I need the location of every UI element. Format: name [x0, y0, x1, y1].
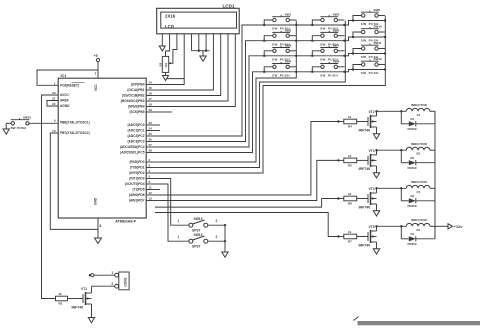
svg-text:26: 26: [149, 138, 153, 142]
svg-text:FR209: FR209: [408, 204, 417, 208]
svg-text:19: 19: [149, 108, 153, 112]
svg-text:VT2: VT2: [369, 110, 375, 114]
resistor R6 1k: [338, 192, 368, 206]
push button SW11: [352, 41, 387, 59]
svg-text:27: 27: [149, 143, 153, 147]
title block line: [358, 321, 480, 325]
push button SW9: [352, 8, 387, 26]
wire VT5 drain node: [375, 225, 406, 227]
svg-text:SW13: SW13: [194, 217, 203, 221]
svg-text:SW_PUSH: SW_PUSH: [11, 126, 27, 130]
ground under LCD data pins: [200, 56, 206, 61]
svg-text:(RXD)PD0: (RXD)PD0: [129, 160, 144, 164]
wire keypad row 2: [160, 37, 385, 142]
svg-text:CON2: CON2: [124, 277, 128, 286]
svg-text:(SCK)PB5: (SCK)PB5: [129, 110, 144, 114]
wire keypad row 1: [160, 21, 385, 137]
svg-text:R3: R3: [158, 62, 162, 66]
svg-text:(ADC0)PC0: (ADC0)PC0: [127, 123, 144, 127]
pin 22 AGND: [52, 102, 70, 108]
ground under IC1: [95, 238, 102, 244]
svg-text:23: 23: [149, 121, 153, 125]
svg-text:11: 11: [149, 186, 153, 190]
pin 13 (AIN1)PD7: [129, 197, 160, 203]
resistor R2 1k: [42, 292, 84, 306]
pin 11 (T1)PD5: [132, 186, 160, 192]
pin 14 (ICP)PB0: [131, 81, 160, 87]
svg-text:R6: R6: [348, 202, 352, 206]
wire PB7 to under-IC ground: [50, 133, 98, 229]
svg-text:25: 25: [149, 132, 153, 136]
svg-text:SW11: SW11: [374, 41, 382, 45]
svg-text:SW9: SW9: [374, 8, 381, 12]
svg-text:17: 17: [149, 97, 153, 101]
svg-text:D3: D3: [411, 194, 415, 198]
svg-text:2X16: 2X16: [165, 13, 176, 18]
svg-text:SPST: SPST: [192, 244, 201, 248]
svg-text:(SS/OC1B)PB2: (SS/OC1B)PB2: [122, 94, 145, 98]
svg-text:R7: R7: [348, 240, 352, 244]
inductor D1: [406, 218, 435, 232]
svg-text:A1: A1: [417, 113, 421, 117]
svg-text:VT1: VT1: [81, 287, 87, 291]
ground under VT3: [373, 173, 379, 178]
push button SW1: [263, 13, 297, 31]
pin 21 AREF: [52, 97, 69, 103]
ground under SPST: [222, 252, 228, 257]
svg-text:(ADC4/SDA)PC4: (ADC4/SDA)PC4: [120, 145, 145, 149]
switch SW14 SPST: [178, 233, 227, 249]
svg-text:B1: B1: [417, 152, 421, 156]
svg-text:1: 1: [178, 235, 180, 239]
svg-text:3: 3: [149, 164, 151, 168]
svg-text:SW6: SW6: [333, 28, 340, 32]
push button SW6: [311, 28, 346, 46]
push button SW2: [263, 28, 297, 46]
svg-text:SW14: SW14: [194, 233, 203, 237]
ground under VT1: [88, 318, 94, 323]
wire PD6 to VT2 gate: [160, 120, 340, 195]
wire LCD pins 5,6,7 joined to ground: [192, 34, 210, 56]
wire VT2 drain node: [375, 110, 406, 112]
diode D3 FR209: [401, 188, 435, 208]
wire keypad row 3: [160, 54, 385, 148]
svg-text:1k: 1k: [348, 115, 352, 119]
svg-text:21: 21: [52, 97, 56, 101]
svg-text:ATMEGA8-P: ATMEGA8-P: [115, 219, 136, 223]
svg-text:D1: D1: [411, 117, 415, 121]
svg-text:(T1)PD5: (T1)PD5: [132, 188, 144, 192]
svg-text:22: 22: [52, 102, 56, 106]
resistor R3 10k (LCD contrast): [158, 56, 168, 72]
pin 10 PB7(XTAL2/TOSC2): [52, 129, 89, 135]
pin 4 (INT0)PD2: [129, 169, 160, 175]
svg-text:24: 24: [149, 127, 153, 131]
+5V supply symbol: [94, 54, 100, 61]
pin 16 (SS/OC1B)PB2: [122, 92, 160, 98]
transistor VT2 IRF740: [359, 110, 377, 134]
pin 2 (RXD)PD0: [129, 158, 160, 164]
wire keypad column 3 return: [160, 16, 385, 173]
svg-text:LCD1: LCD1: [223, 4, 235, 9]
pin 5 (INT1)PD3: [129, 175, 160, 181]
svg-text:20: 20: [52, 91, 56, 95]
transistor VT1 IRF740: [72, 286, 92, 317]
wire LCD pin9 to PB2: [160, 34, 221, 96]
svg-text:SW5: SW5: [333, 13, 340, 17]
ground left of SW15: [3, 123, 9, 134]
svg-text:IRF740: IRF740: [359, 205, 371, 209]
ground under VT4: [373, 211, 379, 216]
diode D4 FR209: [401, 226, 435, 246]
svg-text:VCC: VCC: [94, 84, 98, 91]
svg-text:VT3: VT3: [369, 149, 375, 153]
svg-text:1k: 1k: [348, 154, 352, 158]
svg-text:AREF: AREF: [60, 99, 69, 103]
push button SW3: [263, 44, 297, 62]
svg-text:SW_PUSH: SW_PUSH: [272, 73, 290, 77]
svg-text:+12v: +12v: [454, 224, 464, 229]
diode D1 FR209: [401, 111, 435, 131]
svg-text:10: 10: [52, 129, 56, 133]
pin 7 VCC top: [94, 62, 98, 91]
svg-text:VT4: VT4: [369, 187, 375, 191]
svg-text:8: 8: [100, 224, 102, 228]
inductor C1: [406, 180, 435, 194]
microcontroller IC1 ATMEGA8-P: [58, 78, 146, 218]
svg-text:(AIN1)PD7: (AIN1)PD7: [129, 199, 145, 203]
svg-text:IRF740: IRF740: [359, 128, 371, 132]
pin 28 (ADC5/SCL)PC5: [120, 149, 160, 155]
svg-text:VT5: VT5: [369, 225, 375, 229]
svg-text:(ICP)PB0: (ICP)PB0: [131, 83, 145, 87]
wire keypad column 1 return: [160, 21, 296, 162]
ground under VT5: [373, 249, 379, 254]
svg-text:SW_PUSH: SW_PUSH: [320, 73, 338, 77]
svg-text:IRF740: IRF740: [359, 167, 371, 171]
ground under R3: [163, 76, 169, 81]
svg-text:5: 5: [149, 175, 151, 179]
pin 18 (MISO)PB4: [128, 103, 160, 109]
wire pin1 RESET rail: [37, 70, 98, 85]
wire LCD pin8 to PB1: [160, 34, 213, 90]
wire LCD pin1 (VSS): [161, 34, 163, 46]
svg-text:12: 12: [149, 191, 153, 195]
push button SW4: [263, 60, 297, 78]
svg-text:PB6(XTAL1/TOSC1): PB6(XTAL1/TOSC1): [60, 121, 90, 125]
svg-text:SW15: SW15: [23, 116, 32, 120]
wire PD4 to SPST SW14: [160, 184, 189, 241]
svg-text:R4: R4: [348, 125, 352, 129]
transistor VT4 IRF740: [359, 187, 377, 211]
svg-text:SW_PUSH: SW_PUSH: [361, 71, 379, 75]
push button SW12: [352, 57, 387, 75]
svg-text:SPST: SPST: [192, 228, 201, 232]
pin 9 PB6(XTAL1/TOSC1): [54, 118, 90, 124]
svg-text:1: 1: [111, 271, 113, 275]
svg-text:(INT0)PD2: (INT0)PD2: [129, 171, 144, 175]
svg-text:16: 16: [149, 92, 153, 96]
svg-text:(MISO)PB4: (MISO)PB4: [128, 105, 145, 109]
svg-text:IRF740: IRF740: [72, 305, 84, 309]
svg-text:15: 15: [149, 86, 153, 90]
svg-text:AVCC: AVCC: [60, 93, 69, 97]
pin 15 (OC1A)PB1: [127, 86, 160, 92]
wire PD3 to SPST SW13: [160, 179, 189, 226]
svg-text:R5: R5: [348, 164, 352, 168]
wire to VT4 gate: [155, 197, 340, 207]
wire CON2 pin2 to VT1 drain: [92, 285, 115, 287]
svg-text:PC6(RESET): PC6(RESET): [60, 84, 79, 88]
svg-text:SW12: SW12: [374, 57, 383, 61]
svg-text:IRF740: IRF740: [359, 243, 371, 247]
wire AREF-AGND jog: [47, 101, 58, 107]
pin 24 (ADC1)PC1: [127, 127, 160, 133]
svg-text:SW8: SW8: [333, 60, 340, 64]
wire PB5 stub: [160, 111, 172, 113]
wire VT3 drain node: [375, 149, 406, 151]
inductor A1: [406, 103, 435, 117]
svg-text:28: 28: [149, 149, 153, 153]
svg-text:D4: D4: [411, 232, 415, 236]
svg-text:FR209: FR209: [408, 242, 417, 246]
svg-text:D1: D1: [417, 228, 421, 232]
pin 6 (XCK/T0)PD4: [125, 180, 160, 186]
svg-text:2: 2: [216, 219, 218, 223]
svg-text:4: 4: [149, 169, 151, 173]
pin 19 (SCK)PB5: [129, 108, 160, 114]
svg-text:(ADC3)PC3: (ADC3)PC3: [127, 140, 144, 144]
svg-text:PB7(XTAL2/TOSC2): PB7(XTAL2/TOSC2): [60, 131, 90, 135]
wire to VT5 gate: [155, 213, 340, 238]
transistor VT5 IRF740: [359, 225, 377, 249]
pin 26 (ADC3)PC3: [127, 138, 160, 144]
pin 17 (MOSI/OC2)PB3: [121, 97, 160, 103]
svg-text:AGND: AGND: [60, 104, 70, 108]
pin 27 (ADC4/SDA)PC4: [120, 143, 160, 149]
wire LCD pin11 to PB4: [160, 34, 235, 107]
wire AVCC rail down to R2: [42, 95, 59, 299]
svg-text:(OC1A)PB1: (OC1A)PB1: [127, 88, 144, 92]
wire CON2 pin1 open terminal: [89, 274, 115, 277]
svg-text:FR209: FR209: [408, 127, 417, 131]
svg-text:SW10: SW10: [374, 25, 383, 29]
transistor VT3 IRF740: [359, 149, 377, 173]
pin 3 (TXD)PD1: [130, 164, 160, 170]
svg-text:(ADC5/SCL)PC5: (ADC5/SCL)PC5: [120, 151, 144, 155]
svg-text:SW4: SW4: [285, 60, 292, 64]
+12V supply: [435, 224, 463, 229]
pin 1 PC6(RESET): [54, 81, 79, 87]
svg-text:C1: C1: [417, 190, 421, 194]
svg-text:INDUCTOR: INDUCTOR: [411, 103, 428, 107]
svg-text:2: 2: [149, 158, 151, 162]
diode D2 FR209: [401, 150, 435, 170]
pin 20 AVCC: [52, 91, 69, 97]
svg-text:(ADC1)PC1: (ADC1)PC1: [127, 129, 144, 133]
wire R3 bottom to ground: [166, 72, 185, 78]
wire keypad column 2 return: [160, 21, 345, 168]
push button SW8: [311, 60, 346, 78]
push button SW15: [6, 116, 58, 131]
svg-text:(ADC2)PC2: (ADC2)PC2: [127, 134, 144, 138]
switch SW13 SPST: [178, 217, 227, 233]
svg-text:LCD: LCD: [165, 24, 174, 29]
svg-text:R2: R2: [59, 302, 63, 306]
svg-text:(INT1)PD3: (INT1)PD3: [129, 177, 144, 181]
svg-text:9: 9: [54, 118, 56, 122]
svg-text:1: 1: [178, 219, 180, 223]
wire keypad row 4: [160, 70, 385, 153]
svg-text:1: 1: [54, 81, 56, 85]
wire LCD pin10 to PB3: [160, 34, 228, 101]
svg-text:(MOSI/OC2)PB3: (MOSI/OC2)PB3: [121, 99, 145, 103]
overline on RESET: [72, 82, 85, 84]
wire SPST common to ground: [224, 225, 226, 252]
resistor R7 1k: [338, 230, 368, 244]
svg-text:(AIN0)PD6: (AIN0)PD6: [129, 193, 145, 197]
wire +12V bus: [434, 111, 436, 239]
svg-text:INDUCTOR: INDUCTOR: [411, 180, 428, 184]
ground under VT2: [373, 134, 379, 139]
svg-text:INDUCTOR: INDUCTOR: [411, 142, 428, 146]
svg-text:GND: GND: [94, 197, 98, 205]
svg-text:1k: 1k: [348, 230, 352, 234]
svg-text:SW1: SW1: [285, 13, 292, 17]
svg-text:2: 2: [111, 282, 113, 286]
svg-text:+5: +5: [94, 54, 98, 58]
svg-text:IC1: IC1: [61, 74, 67, 78]
resistor R5 1k: [338, 154, 368, 168]
wire LCD pin3 to R3 wiper: [169, 34, 177, 65]
svg-text:2: 2: [216, 235, 218, 239]
svg-text:FR209: FR209: [408, 166, 417, 170]
svg-text:13: 13: [149, 197, 153, 201]
svg-text:SW2: SW2: [285, 28, 292, 32]
svg-text:1k: 1k: [59, 292, 63, 296]
svg-text:1k: 1k: [348, 192, 352, 196]
wire LCD pin2 to R3 top: [166, 34, 170, 57]
svg-text:(TXD)PD1: (TXD)PD1: [130, 166, 145, 170]
LCD module LCD1 (2x16): [157, 8, 240, 34]
svg-text:(XCK/T0)PD4: (XCK/T0)PD4: [125, 182, 145, 186]
svg-text:7: 7: [95, 72, 97, 76]
resistor R4 1k: [338, 115, 368, 129]
svg-text:14: 14: [149, 81, 153, 85]
wire LCD pin4 to PB0: [160, 34, 184, 85]
svg-text:SW7: SW7: [333, 44, 340, 48]
inductor B1: [406, 142, 435, 156]
svg-text:10k: 10k: [164, 62, 168, 67]
svg-text:SW3: SW3: [285, 44, 292, 48]
pin 12 (AIN0)PD6: [129, 191, 160, 197]
wire VT4 drain node: [375, 187, 406, 189]
wire PD7 to VT3 gate: [160, 159, 340, 200]
pin 25 (ADC2)PC2: [127, 132, 160, 138]
svg-text:6: 6: [149, 180, 151, 184]
push button SW7: [311, 44, 346, 62]
svg-text:18: 18: [149, 103, 153, 107]
push button SW10: [352, 25, 387, 43]
push button SW5: [311, 13, 346, 31]
svg-text:D2: D2: [411, 156, 415, 160]
ground at LCD pin1: [159, 46, 165, 51]
svg-text:INDUCTOR: INDUCTOR: [411, 218, 428, 222]
pin 8 GND bottom: [94, 197, 102, 238]
connector CON2: [111, 271, 129, 290]
pin 23 (ADC0)PC0: [127, 121, 160, 127]
